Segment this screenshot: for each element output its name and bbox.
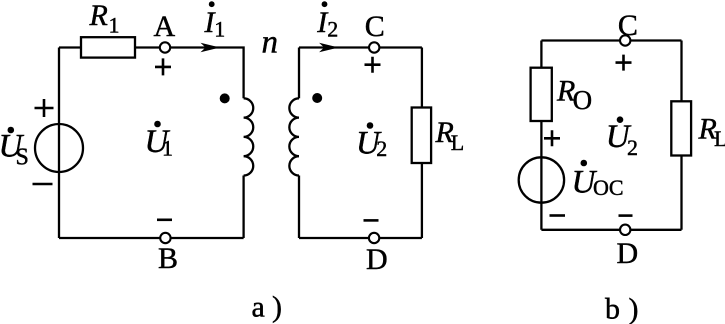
svg-text:C: C [618, 9, 638, 42]
svg-text:A: A [154, 10, 176, 43]
svg-text:1: 1 [162, 136, 173, 161]
svg-text:D: D [617, 237, 639, 270]
svg-text:1: 1 [214, 17, 225, 42]
svg-text:S: S [16, 145, 29, 171]
svg-text:): ) [272, 291, 282, 324]
svg-text:B: B [158, 242, 178, 275]
svg-text:L: L [451, 130, 464, 155]
svg-text:D: D [366, 243, 388, 276]
svg-text:OC: OC [593, 175, 624, 200]
svg-text:2: 2 [376, 136, 387, 161]
svg-text:R: R [89, 0, 108, 32]
svg-text:n: n [262, 24, 279, 60]
svg-text:L: L [714, 126, 725, 151]
svg-text:2: 2 [627, 135, 638, 160]
svg-text:a: a [252, 291, 265, 324]
svg-text:1: 1 [109, 13, 120, 38]
svg-text:): ) [629, 293, 639, 324]
svg-text:2: 2 [327, 17, 338, 42]
svg-text:C: C [365, 10, 385, 43]
svg-text:b: b [605, 293, 620, 324]
svg-text:O: O [573, 85, 593, 115]
